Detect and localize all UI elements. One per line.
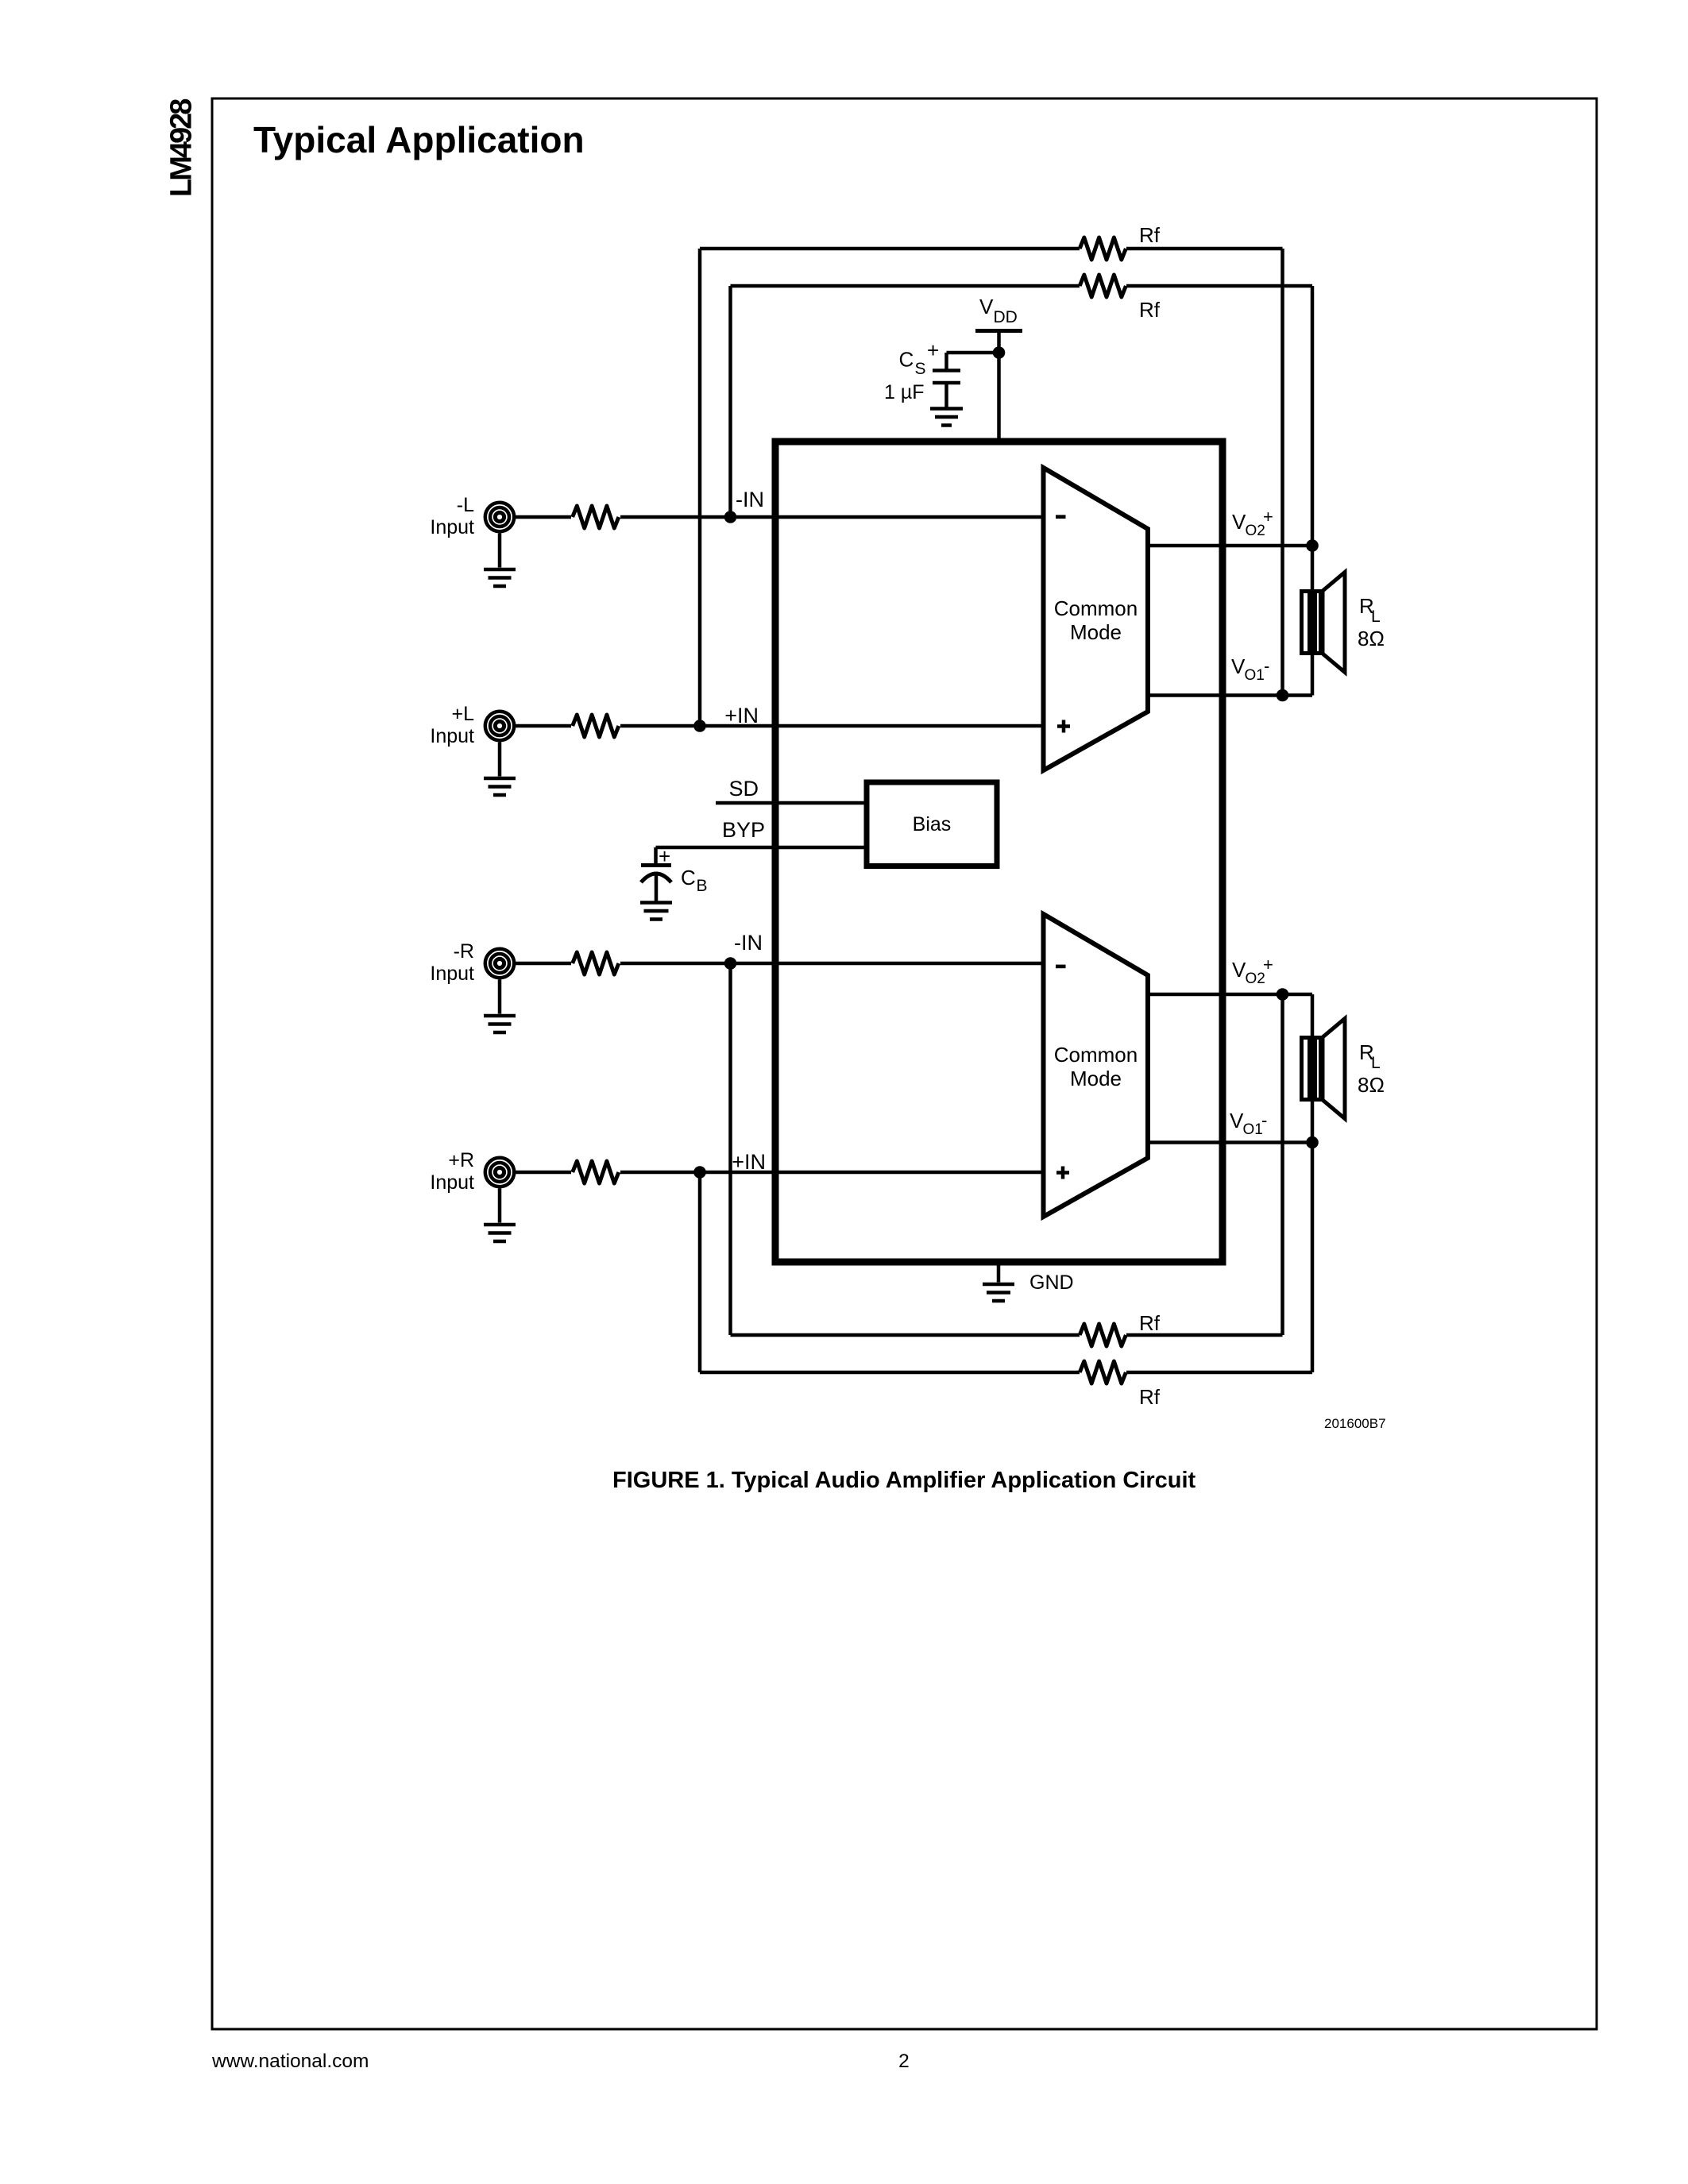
wire Rf top1 left (700, 247, 1080, 251)
node VO2+ L junction (1306, 539, 1319, 552)
wire jack +L to ground (498, 743, 502, 777)
svg-text:-R: -R (454, 940, 474, 963)
wire VO1- R output (1148, 1140, 1312, 1144)
wire SD to Bias (716, 801, 867, 805)
svg-text:+L: +L (451, 703, 474, 725)
capacitor CS 1uF (933, 371, 960, 384)
svg-text:L: L (1371, 1054, 1381, 1072)
wire jack -L to ground (498, 534, 502, 568)
svg-text:GND: GND (1029, 1271, 1074, 1294)
ground (jack +R) (484, 1225, 516, 1241)
ground (jack +L) (484, 778, 516, 795)
svg-text:2: 2 (898, 2051, 910, 2072)
svg-text:BYP: BYP (722, 818, 765, 842)
svg-text:+IN: +IN (732, 1150, 766, 1174)
svg-text:Rf: Rf (1139, 1385, 1161, 1409)
wire top Rf2 to -IN L (728, 286, 732, 517)
VDD supply symbol (975, 329, 1022, 333)
wire Rf bottom1 right (1126, 1333, 1283, 1337)
svg-text:B: B (697, 877, 708, 895)
svg-text:C: C (681, 866, 696, 889)
op-amp A2 (right channel, Common Mode) (1044, 914, 1149, 1217)
input jack +L (485, 712, 514, 740)
wire Rf top2 right (1126, 284, 1312, 288)
svg-text:8Ω: 8Ω (1358, 1073, 1385, 1097)
svg-text:V: V (979, 295, 994, 318)
op-amp A2 minus input mark (1056, 965, 1066, 969)
wire IC to GND (997, 1262, 1001, 1283)
wire jack -R to ground (498, 980, 502, 1014)
svg-text:www.national.com: www.national.com (211, 2051, 369, 2072)
node +IN R junction (693, 1166, 706, 1179)
svg-text:+R: +R (448, 1149, 474, 1171)
resistor Ri (+L channel) (573, 715, 619, 737)
wire Rf top2 left (731, 284, 1080, 288)
wire Ri to -IN (R) (620, 962, 1044, 966)
input jack -L (485, 503, 514, 531)
svg-text:1 µF: 1 µF (884, 381, 925, 403)
svg-text:V: V (1231, 654, 1246, 678)
wire to speaker L top (1311, 546, 1315, 591)
svg-text:FIGURE 1. Typical Audio Amplif: FIGURE 1. Typical Audio Amplifier Applic… (612, 1468, 1196, 1493)
wire top Rf2 to VO2+ L (1311, 286, 1315, 546)
wire VDD to IC (997, 331, 1001, 446)
wire Ri to -IN (L) (620, 515, 1044, 519)
node VO1- R junction (1306, 1136, 1319, 1149)
speaker RL 8ohm (right channel) (1302, 1019, 1346, 1119)
wire VO2+ L output (1148, 544, 1312, 548)
svg-text:Rf: Rf (1139, 1311, 1161, 1335)
svg-text:DD: DD (994, 308, 1018, 326)
node VDD/CS junction (993, 346, 1006, 359)
resistor Rf (top inner) (1080, 275, 1126, 297)
bias block (867, 782, 997, 866)
svg-text:Rf: Rf (1139, 223, 1161, 247)
wire +IN R to bottom Rf2 (698, 1172, 702, 1372)
svg-text:Typical Application: Typical Application (253, 119, 585, 160)
wire jack +R to Ri (516, 1171, 571, 1175)
speaker RL 8ohm (left channel) (1302, 573, 1346, 673)
node -IN R junction (724, 957, 737, 970)
wire VO2+ R output (1148, 993, 1312, 997)
wire speaker L bottom (1311, 654, 1315, 696)
wire Ri to +IN (R) (620, 1171, 1044, 1175)
capacitor CB (polarized) (641, 863, 671, 867)
ground (GND) (983, 1284, 1014, 1301)
svg-text:+: + (1263, 955, 1273, 974)
ground (CS) (930, 409, 963, 426)
svg-text:Common: Common (1054, 1043, 1138, 1067)
svg-text:Mode: Mode (1070, 1067, 1122, 1090)
svg-text:Bias: Bias (913, 813, 952, 835)
page border frame (212, 98, 1597, 2029)
wire jack -L to Ri (516, 515, 571, 519)
wire to speaker R top (1311, 994, 1315, 1038)
resistor Ri (-R channel) (573, 952, 619, 974)
op-amp IC U1 outline (775, 442, 1223, 1262)
wire top Rf to +IN L (698, 249, 702, 726)
svg-text:SD: SD (728, 777, 759, 801)
ground (CB) (640, 903, 672, 920)
svg-text:S: S (915, 360, 926, 378)
svg-text:8Ω: 8Ω (1358, 627, 1385, 650)
wire jack +R to ground (498, 1189, 502, 1223)
wire jack -R to Ri (516, 962, 571, 966)
wire speaker R bottom (1311, 1100, 1315, 1143)
svg-text:Rf: Rf (1139, 298, 1161, 322)
wire Ri to +IN (L) (620, 724, 1044, 728)
op-amp A1 minus input mark (1056, 515, 1066, 519)
resistor Rf (top outer) (1080, 237, 1126, 260)
svg-text:L: L (1371, 608, 1381, 626)
ground (jack -L) (484, 569, 516, 586)
svg-text:-IN: -IN (734, 931, 763, 955)
svg-text:-L: -L (457, 494, 474, 516)
wire VO1- R to bottom Rf2 (1311, 1143, 1315, 1373)
resistor Rf (bottom inner) (1080, 1324, 1126, 1346)
wire BYP to CB (654, 847, 658, 866)
node +IN L junction (693, 720, 706, 732)
input jack +R (485, 1158, 514, 1187)
resistor Ri (+R channel) (573, 1161, 619, 1183)
wire CS branch (947, 351, 999, 355)
op-amp A1 plus input mark (1057, 720, 1070, 733)
svg-text:-: - (1264, 656, 1269, 676)
svg-text:V: V (1230, 1109, 1244, 1133)
svg-text:-: - (1261, 1110, 1267, 1130)
wire VO2+ R to bottom Rf1 (1280, 994, 1284, 1335)
svg-text:Input: Input (430, 1171, 474, 1194)
svg-text:O1: O1 (1243, 1121, 1263, 1138)
wire VO1- L output (1148, 693, 1312, 697)
svg-text:C: C (899, 348, 914, 372)
svg-text:+: + (1263, 507, 1273, 527)
wire BYP to Bias (656, 846, 867, 850)
node VO1- L junction (1277, 689, 1289, 702)
svg-text:O1: O1 (1245, 667, 1265, 684)
input jack -R (485, 949, 514, 978)
resistor Ri (-L channel) (573, 506, 619, 528)
svg-text:LM4928: LM4928 (165, 99, 199, 197)
wire Rf top1 right (1126, 247, 1283, 251)
svg-text:Common: Common (1054, 596, 1138, 620)
svg-text:201600B7: 201600B7 (1324, 1416, 1386, 1431)
ground (jack -R) (484, 1016, 516, 1032)
op-amp A1 (left channel, Common Mode) (1044, 468, 1149, 770)
wire Rf bottom2 right (1126, 1371, 1312, 1375)
svg-text:-IN: -IN (736, 488, 764, 511)
svg-text:V: V (1232, 510, 1246, 534)
svg-text:Input: Input (430, 516, 474, 538)
svg-text:+IN: +IN (724, 704, 759, 727)
svg-text:V: V (1232, 958, 1246, 982)
resistor Rf (bottom outer) (1080, 1361, 1126, 1383)
svg-text:+: + (659, 844, 670, 868)
wire Rf bottom2 left (700, 1371, 1080, 1375)
svg-text:Mode: Mode (1070, 620, 1122, 644)
wire Rf bottom1 left (731, 1333, 1080, 1337)
wire top Rf to VO1- L (1280, 249, 1284, 696)
op-amp A2 plus input mark (1056, 1167, 1069, 1179)
node VO2+ R junction (1277, 988, 1289, 1001)
svg-text:Input: Input (430, 725, 474, 747)
svg-text:+: + (927, 338, 939, 362)
wire jack +L to Ri (516, 724, 571, 728)
wire -IN R to bottom Rf1 (728, 963, 732, 1335)
node -IN L junction (724, 511, 737, 523)
svg-text:Input: Input (430, 963, 474, 985)
